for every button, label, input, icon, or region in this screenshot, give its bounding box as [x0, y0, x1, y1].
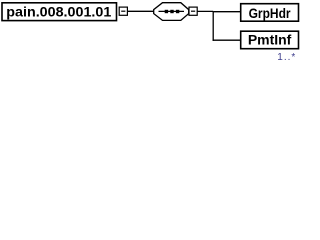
sequence compositor (octagon)	[154, 3, 189, 21]
wire to PmtInf	[213, 39, 241, 41]
collapse box (minus) on element	[119, 7, 127, 15]
svg-text:GrpHdr: GrpHdr	[249, 6, 292, 21]
element box PmtInf	[241, 31, 299, 49]
vertical branch wire	[212, 11, 214, 41]
svg-text:1..*: 1..*	[277, 52, 295, 63]
wire to GrpHdr	[213, 11, 240, 13]
collapse box (minus) on sequence	[189, 7, 197, 15]
wire element to sequence	[127, 10, 154, 12]
element box pain.008.001.01	[2, 3, 117, 21]
wire sequence to junction	[197, 10, 213, 12]
svg-text:PmtInf: PmtInf	[248, 32, 292, 47]
svg-text:pain.008.001.01: pain.008.001.01	[6, 4, 111, 20]
element box GrpHdr	[241, 4, 299, 22]
